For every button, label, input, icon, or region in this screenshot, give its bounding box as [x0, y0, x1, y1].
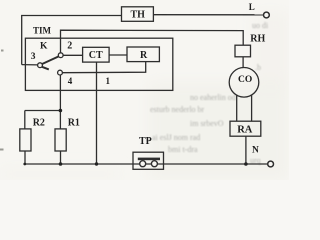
svg-text:N: N: [252, 146, 259, 156]
svg-text:RA: RA: [237, 124, 253, 135]
svg-text:no eaherlin od: no eaherlin od: [190, 93, 236, 102]
svg-text:3: 3: [31, 52, 36, 62]
svg-text:R2: R2: [33, 118, 45, 129]
svg-text:uo di: uo di: [252, 21, 269, 30]
svg-text:CO: CO: [238, 75, 252, 85]
svg-text:ai eslJ nom rad: ai eslJ nom rad: [152, 133, 200, 142]
svg-text:TP: TP: [139, 136, 152, 147]
svg-text:im srbevO: im srbevO: [190, 119, 224, 128]
svg-text:1: 1: [106, 76, 111, 86]
svg-text:bmi t-dra: bmi t-dra: [168, 145, 198, 154]
svg-text:4: 4: [68, 76, 73, 86]
svg-text:RH: RH: [250, 34, 265, 45]
svg-text:esturb nederlo br: esturb nederlo br: [150, 105, 205, 114]
svg-text:TH: TH: [131, 10, 146, 21]
svg-text:K: K: [40, 41, 48, 51]
svg-text:R: R: [140, 50, 148, 61]
svg-text:2: 2: [67, 41, 72, 52]
svg-text:.b: .b: [255, 63, 261, 72]
svg-text:CT: CT: [89, 50, 103, 61]
svg-text:L: L: [249, 2, 255, 12]
svg-text:TIM: TIM: [33, 25, 52, 35]
svg-text:R1: R1: [68, 118, 80, 129]
